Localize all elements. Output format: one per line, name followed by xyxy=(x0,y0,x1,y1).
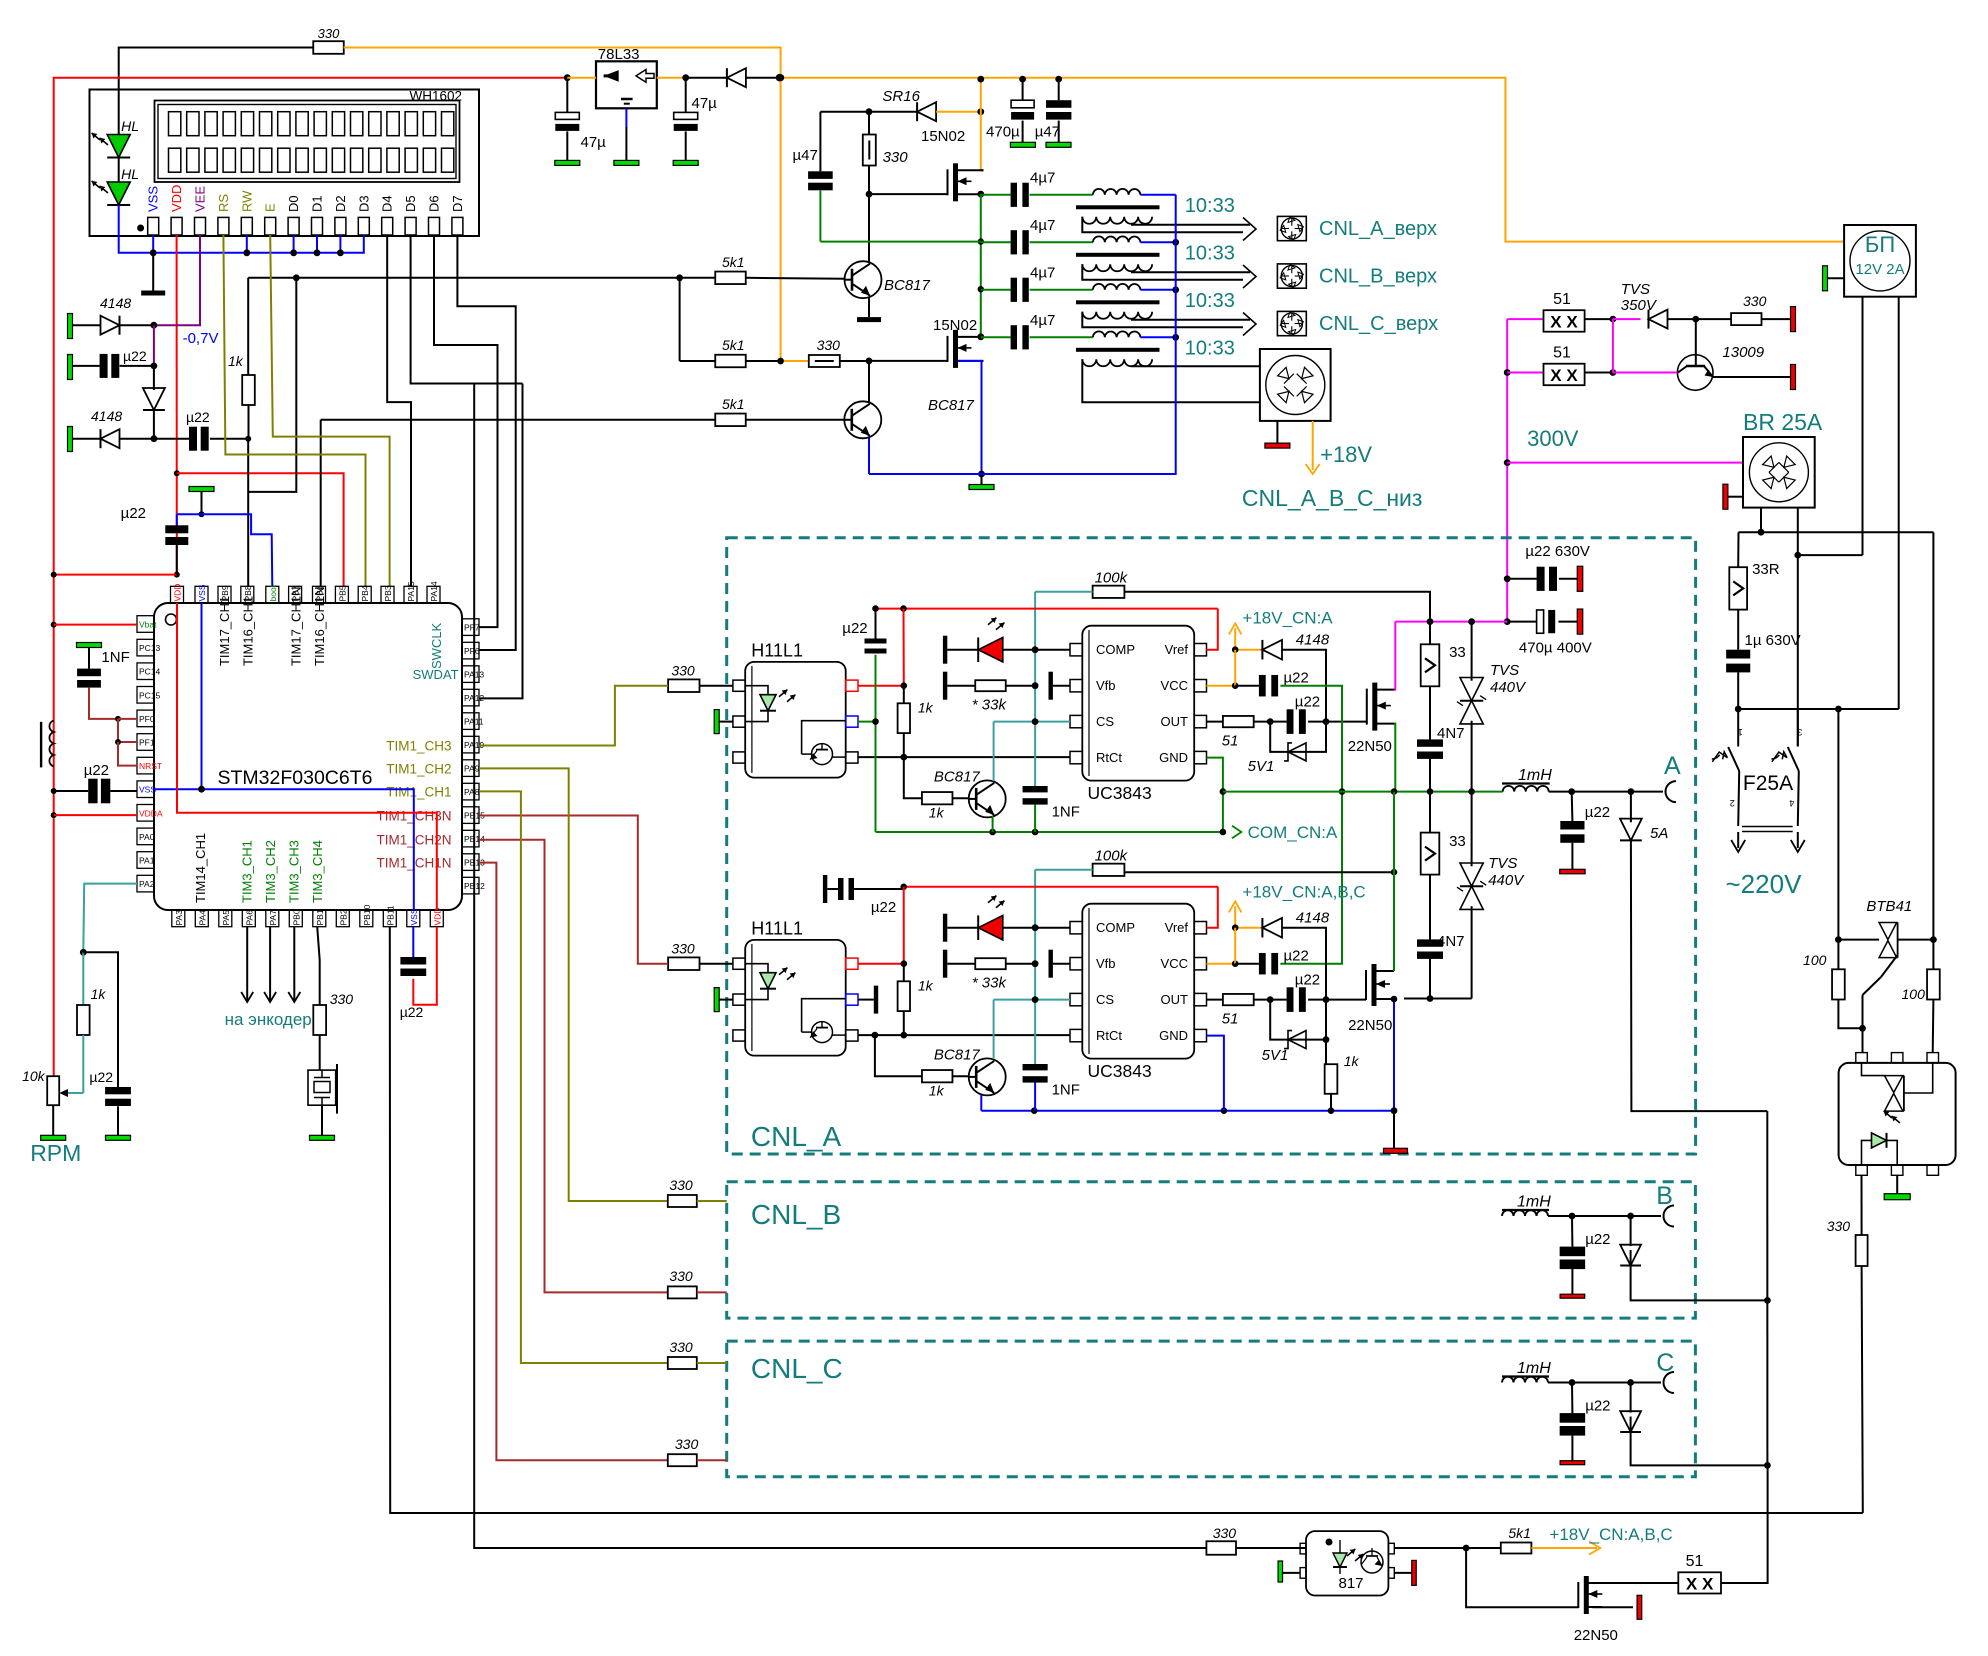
svg-text:на энкодер: на энкодер xyxy=(225,1010,312,1029)
resistor 330 (CNL_C lo) xyxy=(479,863,727,1467)
bridge rectifier BR 25A xyxy=(1743,409,1823,508)
svg-text:D3: D3 xyxy=(356,195,371,212)
svg-text:+18V_CN:A,B,C: +18V_CN:A,B,C xyxy=(1549,1525,1672,1544)
wire drain ch2 xyxy=(1393,792,1395,971)
svg-text:1k: 1k xyxy=(918,978,934,994)
capacitor 4u7 1 xyxy=(981,169,1056,207)
svg-text:SR16: SR16 xyxy=(882,88,920,105)
svg-text:X X: X X xyxy=(1550,313,1578,332)
PSU block BP xyxy=(1844,225,1916,297)
svg-text:33: 33 xyxy=(1449,644,1466,661)
svg-text:5k1: 5k1 xyxy=(722,396,745,412)
wire E-net horizontal xyxy=(248,274,715,281)
resistor 100 b xyxy=(1902,940,1940,1053)
label 10:33 x4 xyxy=(1185,195,1235,359)
svg-text:PA8: PA8 xyxy=(464,787,480,797)
MCU TIM1 labels xyxy=(376,738,451,870)
resistor 33R xyxy=(1729,532,1779,650)
wire PB11 long xyxy=(390,927,1863,1513)
svg-text:БП: БП xyxy=(1865,232,1895,257)
wire purple junction xyxy=(151,325,158,369)
svg-text:D6: D6 xyxy=(427,195,442,212)
svg-text:VDDA: VDDA xyxy=(139,808,163,818)
diode SR16 xyxy=(820,88,984,121)
diode (3V3 or) xyxy=(686,68,784,87)
svg-text:330: 330 xyxy=(330,991,354,1007)
wire 5V1 loop ch1 xyxy=(1248,722,1326,775)
svg-text:TIM16_CH1N: TIM16_CH1N xyxy=(312,587,327,666)
MCU VDD internal wire xyxy=(177,603,437,910)
svg-text:330: 330 xyxy=(1743,293,1767,309)
svg-text:470µ 400V: 470µ 400V xyxy=(1519,640,1592,657)
svg-text:+18V_CN:A: +18V_CN:A xyxy=(1242,609,1333,628)
svg-text:5k1: 5k1 xyxy=(722,254,745,270)
capacitor u22 (MCU bottom) xyxy=(400,927,437,1020)
svg-text:12V 2A: 12V 2A xyxy=(1855,261,1904,278)
wire rail 555 xyxy=(1798,554,1863,556)
wire teal column ch2 xyxy=(1032,870,1039,1003)
circuit breaker F25A xyxy=(1711,709,1805,852)
wire 817 out xyxy=(1394,1545,1469,1552)
svg-text:15N02: 15N02 xyxy=(921,128,965,145)
svg-text:4148: 4148 xyxy=(1296,910,1330,927)
svg-text:PB1: PB1 xyxy=(315,909,325,925)
wire CS teal ch2 xyxy=(994,999,1070,1001)
svg-text:µ22: µ22 xyxy=(123,348,147,364)
svg-text:5V1: 5V1 xyxy=(1262,1047,1289,1064)
resistor 1k (opto) ch2 xyxy=(898,964,934,1035)
resistor 1k (RPM) xyxy=(77,952,106,1093)
svg-text:PC14: PC14 xyxy=(139,667,161,677)
wire green u47 xyxy=(820,241,980,243)
ground green (MCU top) xyxy=(189,487,214,518)
svg-text:330: 330 xyxy=(669,1177,693,1193)
resistor 330 (gate) xyxy=(863,112,908,198)
label ~220V xyxy=(1726,869,1803,899)
resistor 33 bottom xyxy=(1421,792,1466,940)
svg-text:CNL_A_B_C_низ: CNL_A_B_C_низ xyxy=(1242,485,1423,511)
capacitor u22 (RPM) xyxy=(89,1069,130,1140)
capacitor 470u 400V xyxy=(1504,609,1592,656)
svg-text:PA14: PA14 xyxy=(429,581,439,601)
svg-text:µ22: µ22 xyxy=(1585,1398,1610,1415)
svg-text:1k: 1k xyxy=(1344,1053,1360,1069)
capacitor u47 gate xyxy=(793,112,833,242)
terminal green BP xyxy=(1823,266,1845,291)
svg-text:µ22: µ22 xyxy=(121,505,146,522)
svg-text:X X: X X xyxy=(1686,1575,1714,1594)
svg-text:51: 51 xyxy=(1553,291,1571,308)
wire blue boot0 xyxy=(177,514,272,586)
wire E olive xyxy=(270,235,389,586)
LED HL1 xyxy=(90,118,139,158)
MCU VSS internal wire xyxy=(154,603,414,910)
svg-text:PB4: PB4 xyxy=(360,585,370,601)
capacitor 47u a xyxy=(555,74,606,165)
wire emitter ch2 xyxy=(980,1095,982,1111)
diode 4148 vref ch1 xyxy=(1232,632,1330,722)
wire source ch2 xyxy=(1391,996,1398,1111)
svg-text:1mH: 1mH xyxy=(1517,1194,1551,1211)
MCU SWCLK label xyxy=(429,622,444,669)
capacitor 1NF ch2 xyxy=(1023,1000,1080,1099)
wire VDDA xyxy=(54,814,137,816)
svg-text:µ22: µ22 xyxy=(1295,694,1320,711)
wire 51 join xyxy=(1612,319,1614,372)
svg-text:PA4: PA4 xyxy=(197,910,207,926)
wire D6 xyxy=(434,235,498,627)
wire gate ch1 xyxy=(1326,721,1367,723)
svg-text:330: 330 xyxy=(883,149,909,166)
diode (VEE) xyxy=(143,366,165,439)
wire RtCt ch1 xyxy=(858,754,1070,761)
capacitor 47u b xyxy=(657,74,717,165)
wire orange to PSU xyxy=(780,78,1845,242)
wire BTB column left xyxy=(1835,709,1842,943)
mosfet 15N02 a xyxy=(869,128,984,201)
svg-text:1k: 1k xyxy=(929,805,945,821)
MCU right pins xyxy=(462,619,485,894)
wire TIM1_CH3 to ch1 xyxy=(479,686,668,746)
resistor 51 ch1 xyxy=(1207,716,1274,750)
label CNL_C xyxy=(751,1353,843,1384)
wire red top rail xyxy=(54,78,568,1076)
svg-text:RS: RS xyxy=(216,194,231,212)
svg-text:PC13: PC13 xyxy=(139,643,161,653)
svg-text:Vref: Vref xyxy=(1165,920,1189,935)
svg-text:817: 817 xyxy=(1338,1575,1363,1592)
svg-text:COMP: COMP xyxy=(1096,920,1135,935)
svg-text:RtCt: RtCt xyxy=(1096,750,1122,765)
svg-text:10k: 10k xyxy=(22,1068,46,1084)
svg-text:47µ: 47µ xyxy=(692,95,718,112)
connector CNL_A_верх xyxy=(1243,216,1437,241)
svg-text:4µ7: 4µ7 xyxy=(1030,169,1055,186)
svg-text:µ22: µ22 xyxy=(1284,948,1309,965)
svg-text:µ22: µ22 xyxy=(89,1069,113,1085)
resistor 330 b xyxy=(777,337,869,367)
svg-text:OUT: OUT xyxy=(1161,714,1189,729)
diode 4148 a xyxy=(68,295,158,339)
resistor 330 (MOC led) xyxy=(1827,1175,1868,1513)
svg-text:VDD: VDD xyxy=(173,584,183,602)
capacitor u22 in ch1 xyxy=(842,605,886,832)
wire RtCt ch2 xyxy=(858,1032,1070,1039)
transistor BC817 ch1 xyxy=(904,757,1006,821)
wire opto pin2 green ch1 xyxy=(858,718,879,725)
bridge rectifier (aux +18V) xyxy=(1260,349,1331,421)
svg-text:SWCLK: SWCLK xyxy=(429,622,444,669)
svg-text:BC817: BC817 xyxy=(928,397,975,414)
inductor 1mH ch A xyxy=(1502,767,1663,795)
resistor 330 (opto in) ch2 xyxy=(668,941,733,970)
CNL_A box xyxy=(727,538,1696,1154)
mosfet 15N02 b xyxy=(866,317,985,368)
MCU left pins xyxy=(137,616,163,892)
capacitor 1u 630V xyxy=(1726,632,1801,712)
svg-text:PF1: PF1 xyxy=(139,738,155,748)
IC UC3843 ch2 xyxy=(1070,904,1207,1081)
wire BP legs xyxy=(1863,297,1899,709)
svg-text:PA12: PA12 xyxy=(464,693,484,703)
label +18V_CN:ABC ch2 xyxy=(1242,883,1365,902)
svg-text:1mH: 1mH xyxy=(1517,1360,1551,1377)
svg-text:PB11: PB11 xyxy=(385,905,395,925)
wire orange mid drop xyxy=(777,74,784,361)
svg-text:* 33k: * 33k xyxy=(972,975,1008,992)
svg-text:PA6: PA6 xyxy=(244,910,254,926)
wire opto pin2 bar ch2 xyxy=(858,986,878,1014)
ground red ch2 xyxy=(1384,1111,1408,1154)
resistor 5k1 a xyxy=(715,254,844,284)
svg-text:CNL_A_верх: CNL_A_верх xyxy=(1319,218,1437,240)
wire 300V rail xyxy=(1504,319,1511,621)
wire PA12 link xyxy=(479,384,522,699)
svg-text:Vfb: Vfb xyxy=(1096,678,1116,693)
svg-text:1k: 1k xyxy=(929,1083,945,1099)
svg-text:1k: 1k xyxy=(918,700,934,716)
svg-text:1NF: 1NF xyxy=(1052,1082,1080,1099)
wire 5V1 loop ch2 xyxy=(1262,1000,1330,1064)
wire rail 709 xyxy=(1738,706,1899,713)
diode TVS 350V xyxy=(1613,281,1699,329)
svg-text:4148: 4148 xyxy=(100,295,131,311)
capacitor u22 out ch2 xyxy=(1270,972,1329,1012)
svg-text:PB10: PB10 xyxy=(362,904,372,925)
svg-text:330: 330 xyxy=(669,1339,693,1355)
svg-text:350V: 350V xyxy=(1621,297,1658,314)
svg-text:100: 100 xyxy=(1902,986,1926,1002)
optocoupler 817 xyxy=(1300,1531,1394,1595)
wire red to PB5 xyxy=(177,473,344,586)
svg-text:300V: 300V xyxy=(1527,426,1579,451)
svg-text:CNL_A: CNL_A xyxy=(751,1121,842,1152)
fuse 51 a xyxy=(1507,291,1616,332)
svg-text:33: 33 xyxy=(1449,833,1466,850)
fuse 51 c xyxy=(1678,1465,1767,1593)
label -0,7V xyxy=(183,330,219,347)
resistor 100k ch1 xyxy=(1093,570,1129,598)
inductor (VDD filter) xyxy=(41,721,54,768)
svg-text:TIM17_CH1: TIM17_CH1 xyxy=(217,596,232,666)
svg-text:C: C xyxy=(1656,1349,1674,1377)
svg-text:PA11: PA11 xyxy=(464,717,484,727)
svg-text:GND: GND xyxy=(1159,750,1188,765)
MCU timer labels top xyxy=(217,587,327,666)
svg-text:Vfb: Vfb xyxy=(1096,956,1116,971)
LCD module WH1602 xyxy=(90,89,480,237)
svg-text:1k: 1k xyxy=(228,353,244,369)
resistor 330 (CNL_B lo) xyxy=(479,840,727,1299)
arrow +18V_CN:ABC xyxy=(1531,1525,1672,1555)
svg-text:µ22: µ22 xyxy=(1284,670,1309,687)
svg-text:PF6: PF6 xyxy=(464,646,480,656)
svg-text:TIM3_CH2: TIM3_CH2 xyxy=(263,840,278,903)
svg-text:51: 51 xyxy=(1553,345,1571,362)
svg-text:COMP: COMP xyxy=(1096,642,1135,657)
resistor 5k1 (18V) xyxy=(1466,1525,1531,1554)
svg-text:TIM14_CH1: TIM14_CH1 xyxy=(193,833,208,903)
svg-text:1NF: 1NF xyxy=(1052,804,1080,821)
svg-text:10:33: 10:33 xyxy=(1185,337,1235,359)
svg-text:SWDAT: SWDAT xyxy=(413,667,459,682)
svg-text:VCC: VCC xyxy=(1161,678,1188,693)
svg-text:UC3843: UC3843 xyxy=(1088,1061,1152,1081)
MCU SWDAT label xyxy=(413,667,459,682)
CNL_C output filter xyxy=(1502,1349,1771,1469)
optocoupler H11L1 ch2 xyxy=(733,919,858,1056)
LED red ch2 xyxy=(943,893,1070,941)
svg-text:NRST: NRST xyxy=(139,761,162,771)
terminal red 817 xyxy=(1394,1560,1416,1585)
transformer T2 xyxy=(1030,236,1250,279)
MCU timer labels bottom xyxy=(193,833,325,903)
wire BTB column right xyxy=(1930,532,1937,943)
svg-text:µ22: µ22 xyxy=(186,409,210,425)
wire orange from 330 to node xyxy=(344,48,781,78)
resistor 100 a xyxy=(1803,940,1862,1029)
svg-text:PA0: PA0 xyxy=(139,832,155,842)
svg-text:33R: 33R xyxy=(1752,561,1780,578)
svg-text:Vbat: Vbat xyxy=(139,620,157,630)
regulator 78L33 xyxy=(567,46,657,108)
wire D7 xyxy=(457,235,515,650)
svg-text:PA9: PA9 xyxy=(464,764,480,774)
transistor BC817 b xyxy=(844,361,985,477)
capacitor u22 vcc ch2 xyxy=(1207,928,1309,975)
svg-text:BC817: BC817 xyxy=(934,769,981,786)
svg-text:RPM: RPM xyxy=(30,1140,81,1166)
transistor BC817 ch2 xyxy=(872,1032,1006,1099)
transformer T3 xyxy=(1030,284,1250,327)
wire green rail ch1 xyxy=(1223,788,1503,795)
svg-text:X X: X X xyxy=(1550,366,1578,385)
svg-text:H11L1: H11L1 xyxy=(751,641,803,661)
svg-text:BC817: BC817 xyxy=(934,1047,981,1064)
mosfet 22N50 c xyxy=(1574,1576,1618,1644)
wire collector teal ch2 xyxy=(993,1000,995,1060)
svg-text:PA3: PA3 xyxy=(174,910,184,926)
crystal xyxy=(308,1064,337,1140)
svg-text:B: B xyxy=(1656,1182,1673,1210)
svg-text:D7: D7 xyxy=(450,195,465,212)
svg-text:TIM3_CH3: TIM3_CH3 xyxy=(287,840,302,903)
wire to u22 rpm xyxy=(83,952,118,1087)
capacitor 1NF xyxy=(77,643,130,722)
svg-text:µ22: µ22 xyxy=(84,762,109,779)
capacitor 4u7 4 xyxy=(981,312,1056,350)
IC UC3843 ch1 xyxy=(1070,626,1207,803)
svg-text:51: 51 xyxy=(1222,733,1239,750)
wire gate22n50 c xyxy=(1466,1548,1578,1607)
resistor 51 ch2 xyxy=(1207,994,1274,1028)
svg-text:TIM3_CH4: TIM3_CH4 xyxy=(310,840,325,903)
svg-text:VDD: VDD xyxy=(432,908,442,926)
svg-text:330: 330 xyxy=(1827,1218,1851,1234)
wire 100k right ch2 xyxy=(1124,869,1397,876)
svg-text:D2: D2 xyxy=(333,195,348,212)
arrow +18V orange ch1 xyxy=(1229,623,1242,649)
svg-text:D1: D1 xyxy=(310,195,325,212)
diode 5A xyxy=(1620,792,1767,1112)
wire TIM1_CH3N to ch2 xyxy=(479,816,668,964)
svg-text:BTB41: BTB41 xyxy=(1866,898,1912,915)
optocoupler MOC (triac driver) xyxy=(1839,1053,1956,1176)
wire RS olive xyxy=(223,235,365,586)
svg-text:10:33: 10:33 xyxy=(1185,195,1235,217)
svg-text:330: 330 xyxy=(669,1268,693,1284)
resistor 1k (E pullup) xyxy=(228,278,255,587)
svg-text:TVS: TVS xyxy=(1488,855,1517,872)
wire LED chain xyxy=(118,158,120,183)
capacitor u22 out A xyxy=(1560,792,1610,874)
wire source ch1 xyxy=(1394,724,1397,792)
wire blue rail ch2 xyxy=(981,1107,1397,1114)
svg-text:5A: 5A xyxy=(1650,825,1668,842)
svg-text:VSS: VSS xyxy=(146,186,161,212)
resistor 100k ch2 xyxy=(1093,848,1129,876)
svg-text:D4: D4 xyxy=(380,195,395,212)
resistor 330 c xyxy=(1696,293,1796,332)
svg-text:PA1: PA1 xyxy=(139,856,155,866)
wire PA2 teal xyxy=(80,884,137,956)
wire GND green ch1 xyxy=(1207,758,1227,832)
svg-text:5k1: 5k1 xyxy=(1508,1525,1531,1541)
terminal green ch2 xyxy=(714,988,733,1012)
svg-text:PF7: PF7 xyxy=(464,623,480,633)
svg-text:µ47: µ47 xyxy=(793,147,818,164)
svg-text:VDD: VDD xyxy=(169,185,184,212)
svg-text:STM32F030C6T6: STM32F030C6T6 xyxy=(218,767,373,789)
capacitor 4N7 bottom xyxy=(1417,933,1465,1002)
svg-text:HL: HL xyxy=(121,166,139,182)
svg-text:1k: 1k xyxy=(91,986,107,1002)
svg-text:5V1: 5V1 xyxy=(1248,758,1275,775)
svg-text:VSS: VSS xyxy=(409,908,419,925)
capacitor u22 a xyxy=(68,348,154,380)
svg-text:E: E xyxy=(263,203,278,212)
wire red rail ch1 xyxy=(858,605,1218,689)
svg-text:51: 51 xyxy=(1222,1011,1239,1028)
svg-text:µ22: µ22 xyxy=(1585,804,1610,821)
svg-text:-0,7V: -0,7V xyxy=(183,330,219,347)
capacitor 1NF ch1 xyxy=(1023,722,1080,821)
svg-text:UC3843: UC3843 xyxy=(1088,783,1152,803)
wire 100k left ch2 xyxy=(1035,869,1093,871)
wire to PB8 xyxy=(248,278,296,492)
resistor 1k (opto) ch1 xyxy=(898,686,934,757)
svg-text:22N50: 22N50 xyxy=(1348,1017,1392,1034)
wire PF0 PF1 NRST xyxy=(115,719,137,766)
svg-text:PA15: PA15 xyxy=(406,581,416,601)
resistor 5k1 c xyxy=(321,396,844,426)
wire D5b-PB12-long xyxy=(474,384,1206,1549)
wire 100k left ch1 xyxy=(1035,591,1093,593)
svg-text:+18V_CN:A,B,C: +18V_CN:A,B,C xyxy=(1242,883,1365,902)
wire source c xyxy=(1592,1595,1641,1619)
transformer T4 xyxy=(1030,331,1260,402)
svg-text:CNL_C_верх: CNL_C_верх xyxy=(1319,313,1438,335)
wire drain ch1 xyxy=(1394,622,1397,690)
svg-text:2: 2 xyxy=(1730,798,1735,808)
svg-text:PF0: PF0 xyxy=(139,714,155,724)
wire rail 532 xyxy=(1739,531,1934,533)
wire vcc green ch1 xyxy=(1280,686,1345,964)
resistor 330 (CNL_B hi) xyxy=(479,768,727,1207)
wire D4 xyxy=(387,235,411,586)
svg-text:1µ 630V: 1µ 630V xyxy=(1745,632,1801,649)
wire phase return xyxy=(1766,1111,1768,1465)
